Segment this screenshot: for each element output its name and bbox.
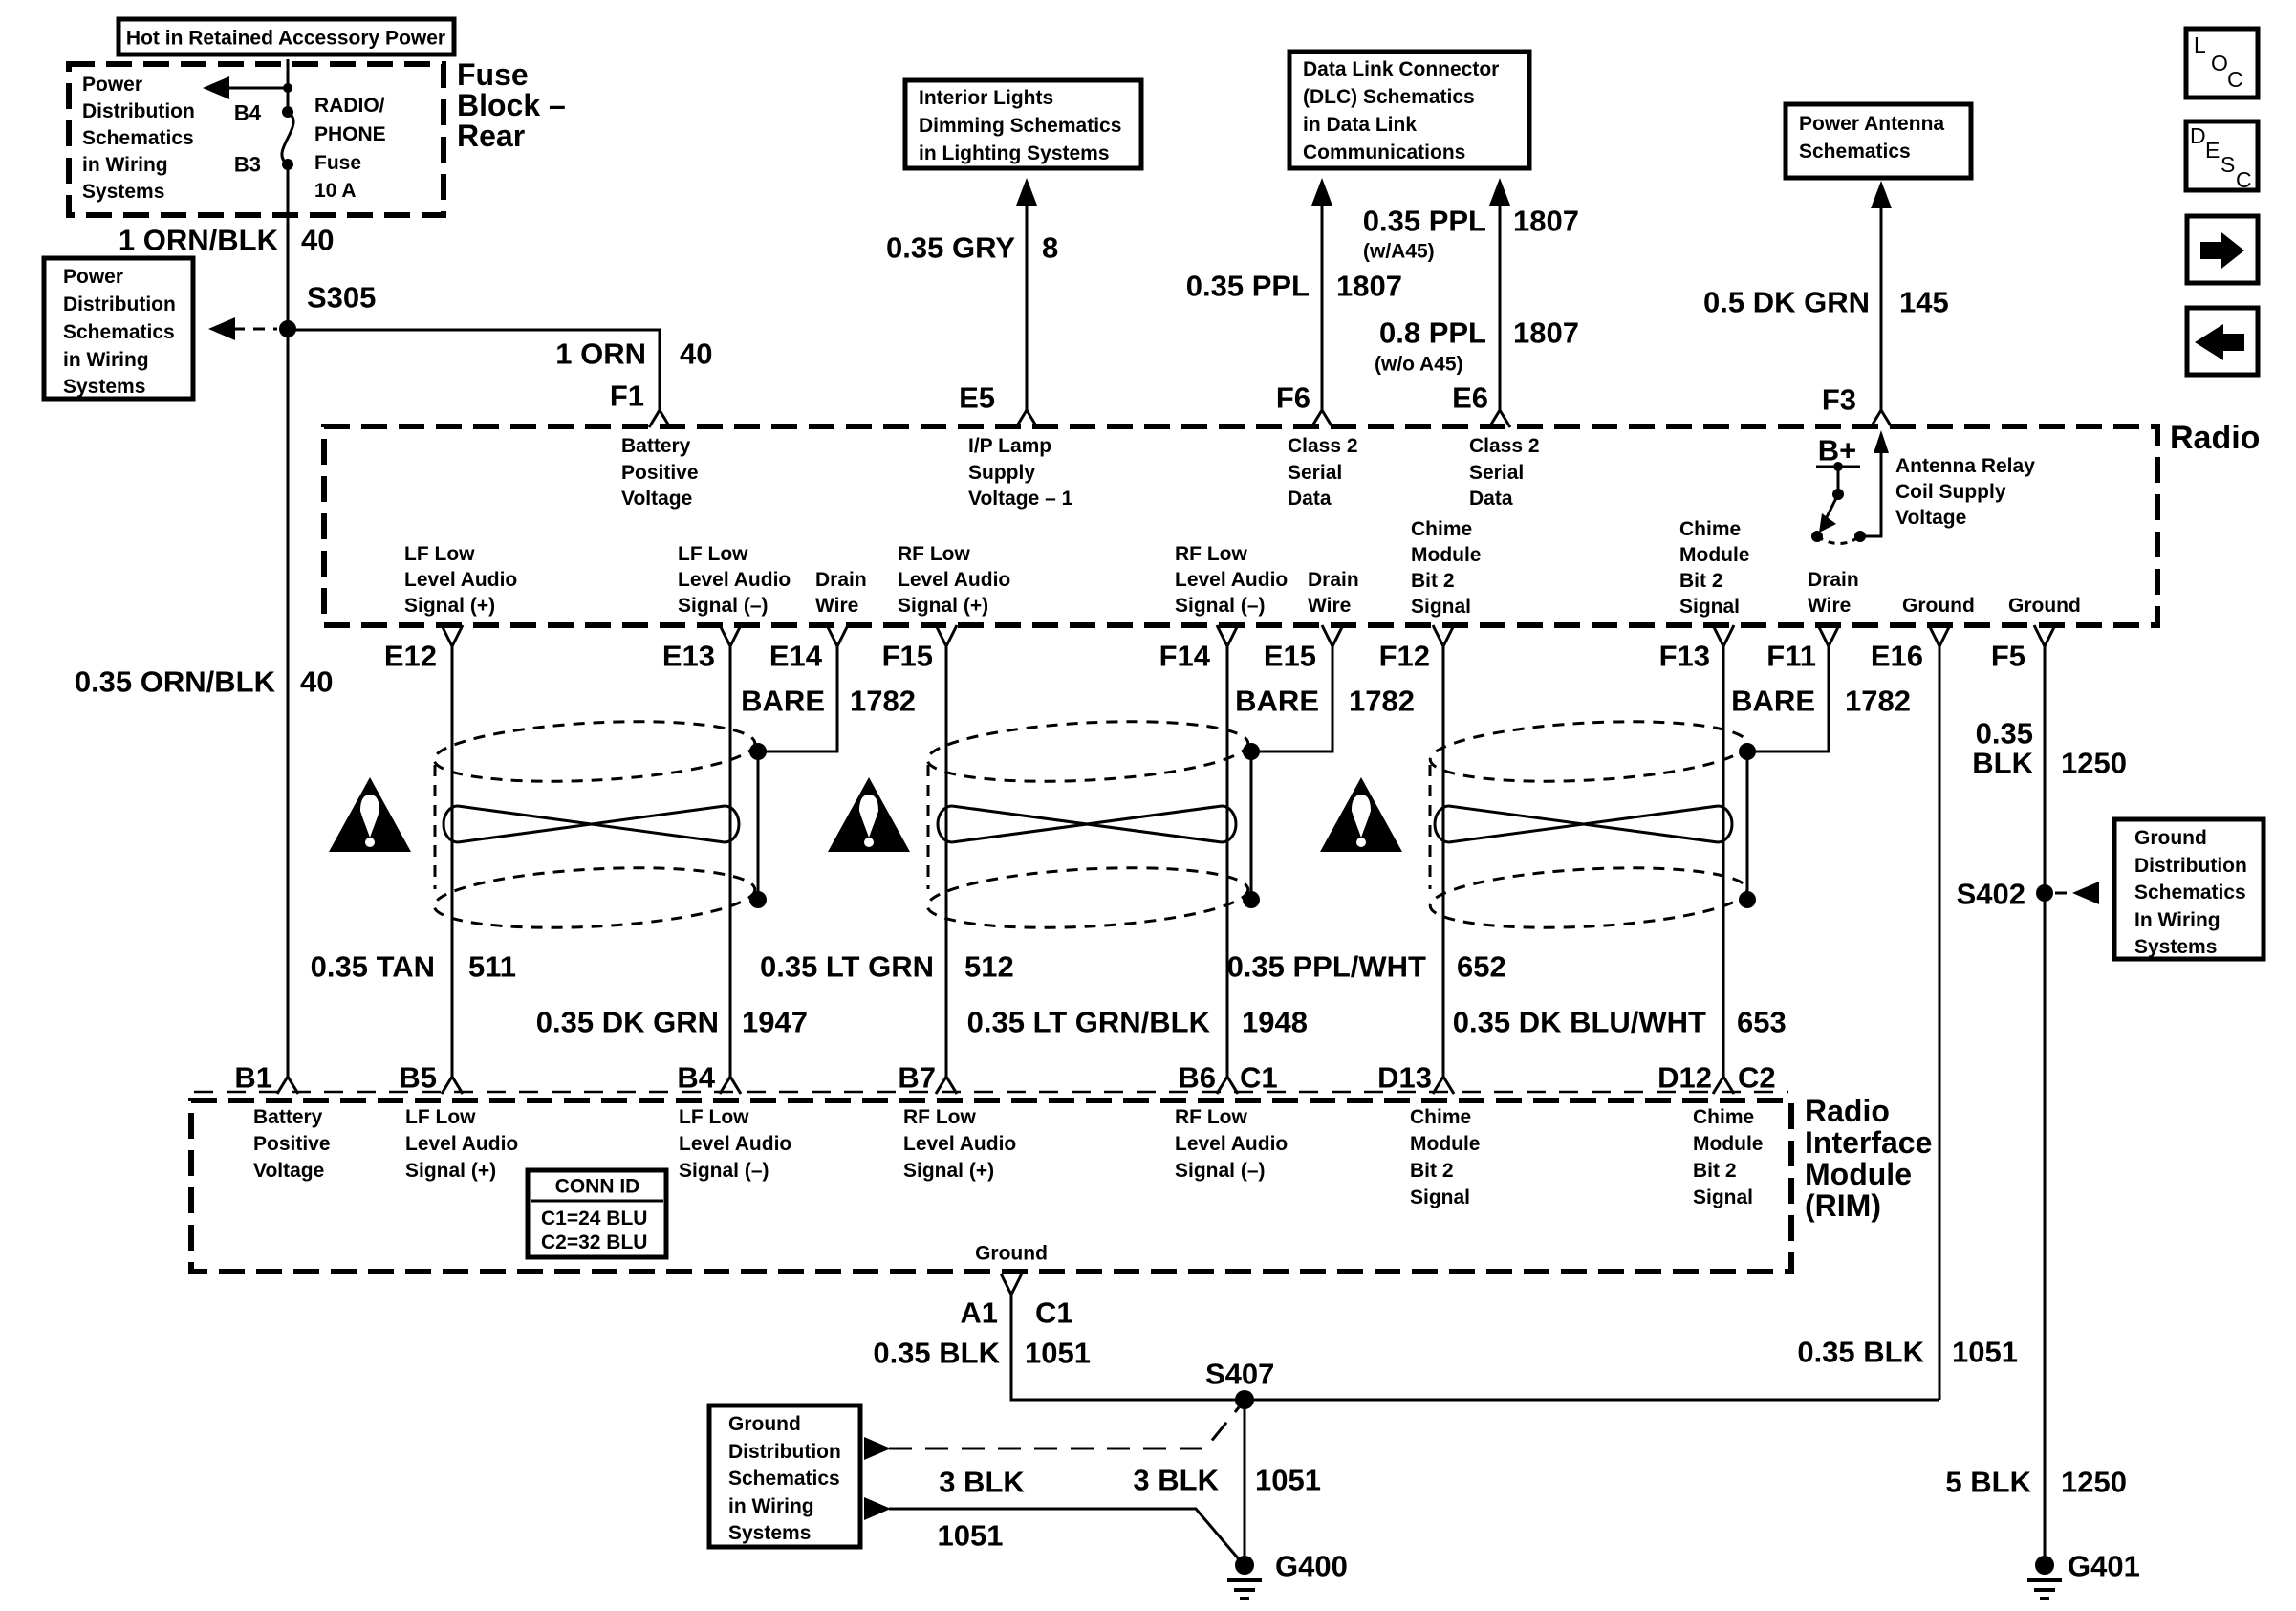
ground distribution schematics box (right) — [2114, 819, 2264, 959]
pin F13 fork — [1713, 625, 1734, 646]
svg-text:in Wiring: in Wiring — [82, 154, 168, 176]
svg-text:1807: 1807 — [1513, 205, 1579, 238]
warning triangle 2 — [828, 777, 910, 852]
pin F1 connector fork — [649, 410, 670, 427]
svg-text:0.35 TAN: 0.35 TAN — [311, 950, 435, 984]
svg-text:Fuse: Fuse — [314, 152, 361, 174]
svg-text:Interface: Interface — [1805, 1125, 1932, 1160]
pin B1 fork — [277, 1077, 298, 1094]
node: drain to shield bottom pair 2 — [1243, 891, 1260, 908]
svg-text:Dimming Schematics: Dimming Schematics — [919, 115, 1121, 137]
svg-text:B4: B4 — [677, 1061, 715, 1095]
svg-text:Wire: Wire — [1308, 595, 1351, 617]
svg-text:Bit 2: Bit 2 — [1411, 570, 1455, 592]
LF low level audio signal (-) descriptor (RIM B4) — [679, 1106, 791, 1182]
svg-text:Schematics: Schematics — [728, 1468, 840, 1490]
svg-text:Drain: Drain — [815, 569, 867, 591]
wire: F14 to B6 (0.35 LT GRN/BLK 1948) — [1226, 646, 1229, 1077]
svg-text:3 BLK: 3 BLK — [1133, 1464, 1219, 1497]
svg-text:E6: E6 — [1452, 381, 1488, 415]
svg-text:1807: 1807 — [1513, 316, 1579, 350]
dashed lead from S402 — [2055, 892, 2070, 895]
svg-text:S: S — [2220, 152, 2235, 177]
antenna relay switch: B+ bar — [1816, 466, 1860, 468]
svg-text:G401: G401 — [2068, 1550, 2140, 1583]
arrowhead up to interior lights box — [1016, 178, 1037, 206]
svg-text:Systems: Systems — [728, 1522, 811, 1544]
svg-text:Level Audio: Level Audio — [679, 1133, 791, 1155]
svg-text:in Wiring: in Wiring — [63, 349, 149, 371]
svg-text:E12: E12 — [384, 640, 437, 673]
svg-text:0.35: 0.35 — [1976, 717, 2033, 751]
svg-text:BARE: BARE — [1235, 685, 1319, 718]
svg-text:Signal (+): Signal (+) — [903, 1160, 994, 1182]
svg-text:(w/A45): (w/A45) — [1363, 241, 1435, 263]
svg-text:Level Audio: Level Audio — [1175, 569, 1288, 591]
svg-text:1782: 1782 — [850, 685, 916, 718]
switch pivot node — [1832, 489, 1844, 500]
svg-text:Power Antenna: Power Antenna — [1799, 113, 1944, 135]
svg-text:S407: S407 — [1205, 1358, 1274, 1391]
svg-text:D: D — [2190, 123, 2206, 148]
svg-text:Signal (–): Signal (–) — [678, 595, 769, 617]
svg-text:0.35 GRY: 0.35 GRY — [886, 231, 1015, 265]
svg-text:Distribution: Distribution — [63, 294, 176, 316]
svg-text:Level Audio: Level Audio — [405, 1133, 518, 1155]
interior lights dimming schematics box — [905, 80, 1141, 168]
shield cylinder pair 2 — [926, 714, 1250, 935]
svg-text:E15: E15 — [1264, 640, 1316, 673]
RF low level audio signal (-) descriptor (radio F14) — [1175, 543, 1288, 617]
svg-text:in Data Link: in Data Link — [1303, 114, 1417, 136]
node S407 — [1235, 1390, 1254, 1409]
wire: F15 to B7 (0.35 LT GRN 512) — [945, 646, 948, 1077]
svg-text:653: 653 — [1737, 1006, 1787, 1039]
wire: F5 ground down to G401 (5 BLK 1250) — [2044, 646, 2047, 1565]
hot in retained accessory power title box — [119, 19, 454, 54]
power antenna schematics box — [1786, 104, 1971, 178]
svg-text:B1: B1 — [234, 1061, 272, 1095]
radio interface module dashed box — [191, 1100, 1791, 1272]
svg-text:Radio: Radio — [2170, 420, 2260, 456]
pin F6 connector fork — [1311, 410, 1332, 427]
pin B4 fork — [720, 1077, 741, 1094]
arrow to power distribution (left) — [203, 76, 229, 99]
class 2 serial data descriptor (radio E6) — [1469, 435, 1540, 510]
svg-text:Distribution: Distribution — [728, 1441, 841, 1463]
shield cylinder pair 3 — [1429, 714, 1749, 934]
svg-text:1 ORN/BLK: 1 ORN/BLK — [119, 224, 279, 257]
svg-text:B3: B3 — [234, 153, 261, 177]
svg-text:Level Audio: Level Audio — [898, 569, 1010, 591]
wire: F13 to D12 (0.35 DK BLU/WHT 653) — [1722, 646, 1725, 1077]
warning triangle 1 — [329, 777, 411, 852]
svg-text:Level Audio: Level Audio — [903, 1133, 1016, 1155]
svg-text:1782: 1782 — [1349, 685, 1415, 718]
svg-text:Level Audio: Level Audio — [404, 569, 517, 591]
node: branch to power distribution — [283, 83, 292, 93]
LOC legend box — [2186, 29, 2258, 98]
svg-text:0.5 DK GRN: 0.5 DK GRN — [1703, 286, 1870, 319]
shield drain bond wire pair 3 — [1746, 751, 1749, 900]
drain wire E14 (BARE 1782) — [758, 646, 837, 751]
ground distribution schematics box (bottom) — [709, 1405, 860, 1547]
arrow to ground distribution (S402) — [2072, 882, 2099, 904]
svg-text:C: C — [2227, 67, 2243, 92]
drain wire descriptor (radio F11) — [1808, 569, 1859, 617]
svg-text:Battery: Battery — [621, 435, 691, 457]
switch contact node left — [1811, 531, 1823, 542]
fuse RADIO/PHONE 10A: top terminal — [282, 106, 293, 118]
pin E16 fork — [1929, 625, 1950, 646]
node: drain to shield top pair 1 — [749, 743, 767, 760]
svg-text:Signal (–): Signal (–) — [1175, 595, 1266, 617]
svg-text:Ground: Ground — [975, 1243, 1048, 1265]
node: drain to shield top pair 3 — [1739, 743, 1756, 760]
svg-text:Module: Module — [1411, 544, 1482, 566]
svg-text:Distribution: Distribution — [2134, 855, 2247, 877]
svg-text:8: 8 — [1042, 231, 1058, 265]
switch blade with arrowhead — [1826, 494, 1838, 519]
fuse block rear dashed box — [69, 64, 444, 215]
pin B6 fork — [1217, 1077, 1238, 1094]
warning triangle 3 — [1320, 777, 1402, 852]
pin F3 connector fork — [1871, 410, 1892, 427]
svg-text:F14: F14 — [1159, 640, 1211, 673]
internal arrowhead up to F3 — [1874, 430, 1889, 453]
svg-text:1 ORN: 1 ORN — [555, 337, 646, 371]
svg-text:in Lighting Systems: in Lighting Systems — [919, 142, 1110, 164]
svg-text:F11: F11 — [1766, 640, 1816, 673]
drain wire F11 (BARE 1782) — [1747, 646, 1829, 751]
wire: E13 to B4 (0.35 DK GRN 1947) — [729, 646, 732, 1077]
radio interface module (RIM) title — [1805, 1094, 1932, 1223]
svg-text:Distribution: Distribution — [82, 100, 195, 122]
radio dashed box — [324, 426, 2157, 625]
twisted pair symbol 3 — [1435, 806, 1732, 842]
svg-text:Interior Lights: Interior Lights — [919, 87, 1053, 109]
dashed wire from S305 to power distribution — [233, 328, 277, 331]
pin F12 fork — [1433, 625, 1454, 646]
svg-text:D13: D13 — [1377, 1061, 1432, 1095]
svg-text:In Wiring: In Wiring — [2134, 909, 2220, 931]
pin E5 connector fork — [1016, 410, 1037, 427]
fuse block rear title — [457, 57, 566, 153]
svg-text:Signal: Signal — [1679, 596, 1740, 618]
svg-text:BARE: BARE — [741, 685, 825, 718]
wire: E12 to B5 (0.35 TAN 511) — [451, 646, 454, 1077]
svg-text:D12: D12 — [1657, 1061, 1712, 1095]
pin A1 fork — [1001, 1274, 1022, 1295]
node: drain to shield bottom pair 3 — [1739, 891, 1756, 908]
svg-text:C1: C1 — [1240, 1061, 1278, 1095]
wire: A1 ground 0.35 BLK 1051 — [1011, 1295, 1939, 1400]
data link connector (DLC) schematics box — [1289, 52, 1529, 168]
svg-text:Signal: Signal — [1411, 596, 1471, 618]
svg-text:1051: 1051 — [938, 1519, 1004, 1553]
svg-text:Module: Module — [1410, 1133, 1481, 1155]
svg-text:Chime: Chime — [1679, 518, 1741, 540]
svg-text:F1: F1 — [610, 380, 644, 413]
svg-text:RF Low: RF Low — [1175, 1106, 1247, 1128]
power distribution schematics box (top left) — [44, 258, 193, 399]
svg-text:5 BLK: 5 BLK — [1945, 1466, 2031, 1499]
svg-text:Radio: Radio — [1805, 1094, 1890, 1128]
pin D12 fork — [1713, 1077, 1734, 1094]
svg-text:Class 2: Class 2 — [1469, 435, 1540, 457]
svg-text:Schematics: Schematics — [63, 321, 175, 343]
svg-text:Serial: Serial — [1288, 462, 1342, 484]
svg-text:Voltage: Voltage — [621, 488, 692, 510]
arrow from ground distribution (3 BLK lead) — [864, 1497, 891, 1520]
ground G400 — [1227, 1556, 1262, 1599]
svg-text:B5: B5 — [399, 1061, 437, 1095]
wire: E6 to DLC — [1499, 201, 1502, 410]
right arrow legend box — [2187, 216, 2258, 283]
svg-text:Voltage – 1: Voltage – 1 — [968, 488, 1073, 510]
pin F15 fork — [936, 625, 957, 646]
dashed wire to S407 — [889, 1407, 1239, 1448]
RIM connector face line — [194, 1091, 1788, 1094]
node: drain to shield bottom pair 1 — [749, 891, 767, 908]
svg-text:Level Audio: Level Audio — [1175, 1133, 1288, 1155]
svg-text:Signal (+): Signal (+) — [405, 1160, 496, 1182]
svg-text:Voltage: Voltage — [253, 1160, 324, 1182]
svg-text:Data: Data — [1469, 488, 1513, 510]
svg-text:LF Low: LF Low — [679, 1106, 749, 1128]
svg-text:Coil Supply: Coil Supply — [1895, 481, 2006, 503]
svg-text:B4: B4 — [234, 101, 262, 125]
svg-text:Communications: Communications — [1303, 142, 1465, 163]
pin D13 fork — [1433, 1077, 1454, 1094]
svg-text:Signal (+): Signal (+) — [898, 595, 988, 617]
arrow to power distribution (left, dashed lead) — [208, 317, 235, 340]
drain wire descriptor (radio E15) — [1308, 569, 1359, 617]
svg-text:Drain: Drain — [1308, 569, 1359, 591]
arrowhead up to power antenna box — [1871, 181, 1892, 208]
svg-text:Ground: Ground — [2134, 827, 2207, 849]
LF low level audio signal (+) descriptor (RIM B5) — [405, 1106, 518, 1182]
svg-text:F13: F13 — [1659, 640, 1710, 673]
pin B7 fork — [936, 1077, 957, 1094]
LF low level audio signal (-) descriptor (radio E13) — [678, 543, 791, 617]
node: drain to shield top pair 2 — [1243, 743, 1260, 760]
svg-text:E: E — [2205, 138, 2220, 163]
svg-text:Signal: Signal — [1410, 1186, 1470, 1208]
svg-text:G400: G400 — [1275, 1550, 1348, 1583]
svg-text:1051: 1051 — [1025, 1337, 1091, 1370]
svg-text:1051: 1051 — [1952, 1336, 2018, 1369]
pin E13 fork — [720, 625, 741, 646]
chime module bit 2 signal descriptor (RIM D12) — [1693, 1106, 1764, 1208]
class 2 serial data descriptor (radio F6) — [1288, 435, 1358, 510]
svg-text:(DLC) Schematics: (DLC) Schematics — [1303, 86, 1475, 108]
pin F5 fork — [2034, 625, 2055, 646]
CONN ID table — [528, 1170, 666, 1257]
svg-text:Signal: Signal — [1693, 1186, 1753, 1208]
svg-text:1948: 1948 — [1242, 1006, 1308, 1039]
svg-text:Block –: Block – — [457, 88, 566, 122]
shield drain bond wire pair 1 — [757, 751, 760, 900]
pin E6 connector fork — [1489, 410, 1510, 427]
svg-text:BLK: BLK — [1972, 747, 2033, 780]
DESC legend box — [2186, 121, 2258, 192]
node S402 — [2036, 884, 2053, 902]
svg-text:F15: F15 — [882, 640, 933, 673]
svg-text:Bit 2: Bit 2 — [1410, 1160, 1454, 1182]
svg-text:CONN ID: CONN ID — [555, 1176, 640, 1198]
svg-text:Ground: Ground — [2008, 595, 2081, 617]
svg-text:C: C — [2236, 167, 2252, 192]
svg-text:Wire: Wire — [815, 595, 858, 617]
I/P lamp supply voltage descriptor (radio E5) — [968, 435, 1073, 510]
svg-text:1051: 1051 — [1255, 1464, 1321, 1497]
svg-text:Systems: Systems — [63, 376, 145, 398]
fuse bottom terminal — [282, 159, 293, 170]
svg-text:A1: A1 — [960, 1296, 998, 1330]
svg-text:E5: E5 — [959, 381, 995, 415]
svg-text:RF Low: RF Low — [903, 1106, 976, 1128]
svg-text:1947: 1947 — [742, 1006, 808, 1039]
svg-text:0.35 BLK: 0.35 BLK — [873, 1337, 1000, 1370]
shield drain bond wire pair 2 — [1250, 751, 1253, 900]
svg-text:LF Low: LF Low — [404, 543, 475, 565]
svg-text:Module: Module — [1805, 1157, 1912, 1191]
svg-text:in Wiring: in Wiring — [728, 1495, 814, 1517]
svg-text:145: 145 — [1899, 286, 1949, 319]
svg-text:S402: S402 — [1957, 878, 2025, 911]
arrowhead up to DLC box (E6) — [1489, 178, 1510, 206]
svg-text:Positive: Positive — [621, 462, 699, 484]
svg-text:Power: Power — [63, 266, 123, 288]
svg-text:Wire: Wire — [1808, 595, 1851, 617]
LF low level audio signal (+) descriptor (radio E12) — [404, 543, 517, 617]
svg-text:Module: Module — [1679, 544, 1750, 566]
chime module bit 2 signal descriptor (radio F12) — [1411, 518, 1482, 618]
svg-text:RF Low: RF Low — [1175, 543, 1247, 565]
svg-text:Class 2: Class 2 — [1288, 435, 1358, 457]
svg-text:Ground: Ground — [1902, 595, 1975, 617]
svg-text:0.35 DK GRN: 0.35 DK GRN — [536, 1006, 719, 1039]
svg-text:Supply: Supply — [968, 462, 1035, 484]
svg-text:Antenna Relay: Antenna Relay — [1895, 455, 2035, 477]
svg-text:0.8 PPL: 0.8 PPL — [1379, 316, 1486, 350]
svg-text:Level Audio: Level Audio — [678, 569, 791, 591]
svg-text:10 A: 10 A — [314, 180, 357, 202]
RF low level audio signal (+) descriptor (radio F15) — [898, 543, 1010, 617]
svg-text:B7: B7 — [898, 1061, 936, 1095]
arrow from ground distribution (dashed lead) — [864, 1437, 891, 1460]
svg-text:Serial: Serial — [1469, 462, 1524, 484]
svg-text:(RIM): (RIM) — [1805, 1188, 1881, 1223]
RF low level audio signal (+) descriptor (RIM B7) — [903, 1106, 1016, 1182]
switch stem — [1837, 467, 1840, 494]
svg-text:Data Link Connector: Data Link Connector — [1303, 58, 1499, 80]
svg-text:Chime: Chime — [1410, 1106, 1471, 1128]
svg-text:Bit 2: Bit 2 — [1693, 1160, 1737, 1182]
wire: RAP feed into fuse block — [287, 59, 290, 112]
wire: 1 ORN/BLK 40 from fuse B3 down to S305 and on to B1 — [287, 164, 290, 1077]
switch node top — [1833, 462, 1843, 471]
svg-text:0.35 BLK: 0.35 BLK — [1797, 1336, 1924, 1369]
svg-text:C1: C1 — [1035, 1296, 1073, 1330]
wire: S407 to G400 (3 BLK 1051) — [1244, 1400, 1246, 1565]
wire: branch to power distribution schematics — [227, 87, 288, 90]
fuse element squiggle — [282, 112, 293, 164]
svg-text:Fuse: Fuse — [457, 57, 529, 92]
svg-text:Module: Module — [1693, 1133, 1764, 1155]
svg-text:1807: 1807 — [1336, 270, 1402, 303]
svg-text:PHONE: PHONE — [314, 123, 386, 145]
svg-text:3 BLK: 3 BLK — [939, 1466, 1025, 1499]
node S305 — [279, 320, 296, 337]
fuse value label — [314, 95, 386, 202]
chime module bit 2 signal descriptor (radio F13) — [1679, 518, 1750, 618]
wire: F12 to D13 (0.35 PPL/WHT 652) — [1442, 646, 1445, 1077]
antenna relay coil supply voltage descriptor — [1895, 455, 2035, 529]
svg-text:Signal (–): Signal (–) — [1175, 1160, 1266, 1182]
svg-text:Systems: Systems — [2134, 936, 2217, 958]
svg-text:RF Low: RF Low — [898, 543, 970, 565]
twisted pair symbol 1 — [444, 806, 739, 842]
svg-text:B6: B6 — [1178, 1061, 1216, 1095]
svg-text:40: 40 — [680, 337, 712, 371]
RF low level audio signal (-) descriptor (RIM B6) — [1175, 1106, 1288, 1182]
pin F11 fork — [1818, 625, 1839, 646]
pin E12 fork — [442, 625, 463, 646]
svg-text:0.35 ORN/BLK: 0.35 ORN/BLK — [75, 665, 276, 699]
svg-text:F5: F5 — [1991, 640, 2025, 673]
svg-text:LF Low: LF Low — [405, 1106, 476, 1128]
svg-text:E13: E13 — [662, 640, 715, 673]
dashed travel arc — [1817, 536, 1860, 544]
wire: S305 to F1 (1 ORN 40) — [288, 330, 660, 410]
svg-text:Systems: Systems — [82, 181, 164, 203]
svg-text:Battery: Battery — [253, 1106, 323, 1128]
svg-text:0.35 LT GRN/BLK: 0.35 LT GRN/BLK — [967, 1006, 1211, 1039]
svg-text:Signal (–): Signal (–) — [679, 1160, 769, 1182]
svg-text:Schematics: Schematics — [82, 127, 194, 149]
svg-text:I/P Lamp: I/P Lamp — [968, 435, 1051, 457]
svg-text:1250: 1250 — [2061, 747, 2127, 780]
shield cylinder pair 1 — [433, 714, 757, 935]
battery positive voltage descriptor (RIM B1) — [253, 1106, 331, 1182]
svg-text:0.35 PPL: 0.35 PPL — [1186, 270, 1310, 303]
svg-text:F6: F6 — [1276, 381, 1310, 415]
svg-text:E16: E16 — [1871, 640, 1923, 673]
wire: E5 to interior lights dimming — [1026, 201, 1029, 410]
svg-text:40: 40 — [301, 224, 334, 257]
left arrow legend box — [2187, 308, 2258, 375]
svg-text:40: 40 — [300, 665, 333, 699]
pin E14 fork — [827, 625, 848, 646]
svg-text:Ground: Ground — [728, 1413, 801, 1435]
svg-text:C2: C2 — [1738, 1061, 1776, 1095]
wire: F6 to DLC — [1321, 201, 1324, 410]
svg-text:Power: Power — [82, 74, 142, 96]
pin F14 fork — [1217, 625, 1238, 646]
svg-text:1250: 1250 — [2061, 1466, 2127, 1499]
wire: F3 to power antenna — [1880, 204, 1883, 410]
svg-text:Hot in Retained Accessory Powe: Hot in Retained Accessory Power — [126, 28, 445, 50]
svg-text:0.35 PPL: 0.35 PPL — [1363, 205, 1486, 238]
svg-text:Bit 2: Bit 2 — [1679, 570, 1723, 592]
wire from contact to F3 (internal) — [1860, 449, 1881, 536]
svg-text:F12: F12 — [1379, 640, 1430, 673]
drain wire E15 (BARE 1782) — [1251, 646, 1332, 751]
pin B5 fork — [442, 1077, 463, 1094]
svg-text:0.35 PPL/WHT: 0.35 PPL/WHT — [1227, 950, 1426, 984]
